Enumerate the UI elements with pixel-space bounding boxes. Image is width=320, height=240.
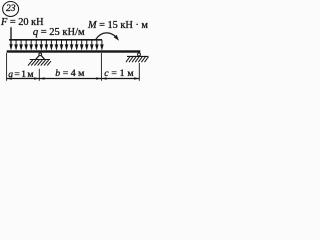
- extension line left end: [6, 53, 8, 81]
- right support ground line: [127, 55, 149, 57]
- force F arrow: [10, 27, 12, 44]
- extension line right end: [138, 63, 140, 81]
- beam: [7, 50, 141, 52]
- left pin support: [30, 53, 50, 60]
- label c = 1 m: [104, 69, 133, 79]
- right support hatching: [126, 57, 148, 62]
- dimension extension lines: [7, 53, 140, 81]
- problem number circle: [3, 2, 19, 17]
- moment M arc arrow: [96, 33, 116, 39]
- extension line at end of load: [100, 53, 102, 81]
- left support hatching: [28, 60, 51, 66]
- label 23: [6, 5, 16, 15]
- label a = 1 m: [8, 70, 33, 80]
- label b = 4 m: [55, 69, 84, 79]
- label F = 20 kN: [1, 18, 44, 28]
- dimension line: [7, 78, 140, 80]
- label M = 15 kN*m: [88, 21, 148, 31]
- extension line at support A: [38, 69, 40, 81]
- label q = 25 kN/m: [33, 28, 85, 39]
- left support ground line: [30, 59, 50, 61]
- distributed load q top line: [9, 39, 102, 41]
- dimension arrowheads: [7, 77, 139, 79]
- right pin support: [127, 53, 149, 56]
- distributed load arrows: [14, 40, 103, 51]
